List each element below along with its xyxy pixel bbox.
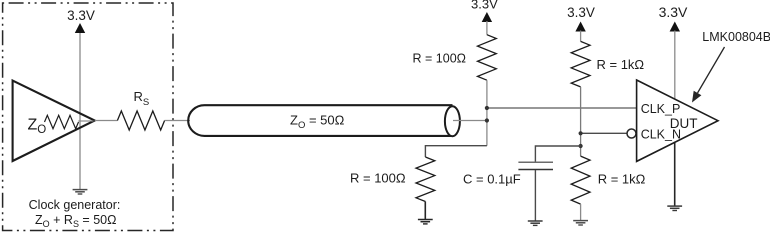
wire: capacitor to ground	[534, 170, 536, 221]
svg-text:3.3V: 3.3V	[471, 0, 498, 11]
ground (100 ohm)	[418, 220, 433, 224]
capacitor C	[518, 162, 553, 169]
node capacitor junction	[579, 144, 583, 148]
resistor R=1k bottom	[571, 156, 590, 204]
wire: buffer apex to R_s	[95, 120, 118, 122]
wire: bias vertical	[580, 87, 582, 156]
clock generator box	[3, 3, 173, 231]
svg-text:R = 1kΩ: R = 1kΩ	[598, 172, 646, 187]
source impedance zigzag (inside buffer)	[45, 115, 79, 128]
svg-text:R = 1kΩ: R = 1kΩ	[597, 57, 645, 72]
svg-text:R = 100Ω: R = 100Ω	[413, 52, 466, 66]
DUT buffer triangle	[637, 80, 718, 161]
svg-text:CLK_N: CLK_N	[641, 128, 681, 142]
resistor R_s	[117, 111, 164, 130]
wire: R_s to transmission line	[165, 120, 190, 122]
wire: line output to node	[453, 120, 487, 122]
svg-text:Clock generator:: Clock generator:	[29, 198, 121, 212]
svg-text:LMK00804B: LMK00804B	[702, 30, 770, 44]
svg-text:3.3V: 3.3V	[67, 8, 95, 23]
wire: R100 bottom to ground	[424, 202, 426, 220]
3.3V arrow (clock generator)	[75, 23, 85, 33]
wire: DUT vdd rail	[674, 31, 676, 100]
node line output junction	[485, 118, 489, 122]
3.3V arrow (DUT)	[670, 22, 680, 32]
svg-text:CLK_P: CLK_P	[641, 102, 681, 116]
wire: to bottom 100 ohm	[425, 146, 487, 157]
svg-text:3.3V: 3.3V	[567, 5, 595, 20]
wire: zigzag to apex (inside buffer)	[78, 120, 93, 122]
wire: R1k bottom to ground	[580, 204, 582, 221]
svg-text:C = 0.1µF: C = 0.1µF	[463, 172, 521, 187]
wire: CLK_N net	[581, 132, 627, 134]
3.3V arrow (1k pullup)	[575, 22, 585, 32]
node CLK_P junction	[485, 106, 489, 110]
ground (clock generator)	[73, 190, 88, 194]
resistor R=100 top	[478, 35, 497, 80]
transmission line body	[188, 105, 452, 136]
3.3V rail wire (clock generator)	[79, 32, 81, 190]
3.3V arrow (100 ohm pullup)	[482, 12, 492, 22]
wire: to capacitor	[535, 146, 580, 162]
ground (1k)	[573, 221, 588, 225]
wire: CLK_P net	[487, 107, 637, 109]
LMK00804B annotation arrow	[698, 47, 725, 93]
resistor R=100 bottom	[416, 157, 435, 202]
clock source buffer triangle	[13, 81, 95, 161]
svg-text:3.3V: 3.3V	[659, 4, 688, 20]
inversion bubble CLK_N	[627, 129, 636, 138]
resistor R=1k top	[571, 41, 590, 86]
wire: arrow to R1k top	[580, 31, 582, 42]
ground (capacitor)	[528, 221, 543, 225]
node CLK_N junction	[579, 131, 583, 135]
wire: node vertical	[486, 80, 488, 146]
transmission line right face	[445, 106, 460, 136]
svg-text:R = 100Ω: R = 100Ω	[350, 171, 406, 186]
wire: arrow to R100 top	[486, 21, 488, 35]
ground (DUT)	[667, 206, 682, 210]
wire: DUT ground rail	[674, 142, 676, 206]
